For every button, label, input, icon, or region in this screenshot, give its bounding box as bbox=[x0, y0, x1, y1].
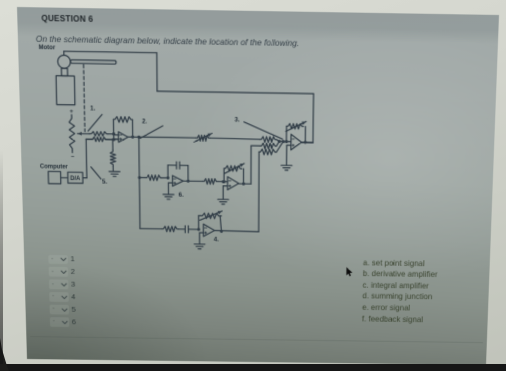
faint page separator line near bottom bbox=[30, 336, 483, 343]
pointer line 2 bbox=[140, 126, 163, 139]
ground (U4 + input) bbox=[218, 199, 229, 204]
question prompt bbox=[36, 34, 300, 49]
svg-text:D/A: D/A bbox=[70, 175, 81, 182]
ground stem U2 + input bbox=[168, 183, 172, 194]
label - (pot return) bbox=[71, 154, 75, 161]
label 2. bbox=[142, 118, 147, 125]
dropdown row 4 bbox=[48, 292, 50, 303]
pointer line 5 bbox=[91, 167, 101, 179]
node inverting input U1 bbox=[112, 132, 118, 141]
wire error branch to derivative bbox=[140, 228, 162, 230]
pot wiper arrow bbox=[77, 132, 89, 136]
potentiometer RV1 (position feedback) bbox=[69, 115, 75, 153]
dark corner wedge bottom-left bbox=[0, 338, 9, 371]
answer option e bbox=[362, 303, 410, 312]
motor arm (lever) bbox=[71, 60, 116, 64]
ground (U3 + input) bbox=[281, 165, 292, 170]
answer option c bbox=[363, 281, 429, 291]
ground stem U3 + input bbox=[287, 145, 291, 165]
resistor R8 (summing input D) bbox=[259, 149, 276, 155]
D/A converter block bbox=[68, 172, 83, 183]
label 6. bbox=[179, 192, 184, 199]
answer option b bbox=[363, 269, 438, 279]
motor M1 body bbox=[55, 51, 74, 105]
capacitor C1 (integrator feedback) bbox=[168, 162, 188, 181]
wire error node to P resistor bbox=[139, 136, 196, 139]
op-amp U3 (summing/power amplifier) bbox=[291, 134, 302, 150]
dropdown row 1 bbox=[47, 254, 49, 265]
resistor R7 (summing input I) bbox=[260, 143, 276, 149]
wire error node down to I and D branches bbox=[137, 137, 141, 229]
ground (U2 + input) bbox=[163, 194, 174, 199]
label 1. bbox=[90, 105, 96, 112]
svg-text:6.: 6. bbox=[179, 192, 184, 199]
mechanical link (dashed) motor shaft to pot wiper bbox=[84, 65, 85, 132]
mouse cursor bbox=[346, 267, 353, 277]
node summing junction bbox=[276, 140, 291, 153]
answer option a bbox=[363, 258, 425, 268]
wire U4 output up to summing resistor R7 bbox=[239, 145, 260, 185]
pointer line 3 bbox=[244, 122, 283, 139]
op-amp U4 (integral gain stage) bbox=[228, 177, 239, 190]
answer option d bbox=[362, 292, 432, 302]
wire P resistor to summing resistor bbox=[210, 138, 260, 139]
svg-text:2.: 2. bbox=[142, 118, 147, 125]
variable resistor R12 (U4 feedback) bbox=[222, 163, 244, 184]
op-amp U2 (integral amplifier) bbox=[172, 176, 183, 187]
dropdown row 2 bbox=[47, 267, 49, 278]
resistor R2 (set point input) bbox=[86, 137, 114, 142]
capacitor C2 (derivative input) bbox=[185, 226, 200, 233]
resistor R6 (summing input P) bbox=[260, 137, 277, 143]
ground resistor R3 at U1 + input bbox=[110, 139, 119, 171]
label 4. bbox=[214, 236, 219, 243]
label Motor bbox=[39, 45, 56, 51]
op-amp U1 (error amplifier) bbox=[118, 132, 128, 143]
wire U1 output / error node bbox=[128, 135, 140, 138]
question header bbox=[41, 13, 93, 23]
variable resistor R9 (U3 feedback) bbox=[285, 121, 306, 143]
svg-text:3.: 3. bbox=[235, 116, 240, 123]
dropdown row 5 bbox=[48, 304, 50, 315]
answer option f bbox=[362, 314, 423, 323]
label 3. bbox=[235, 116, 240, 123]
label + (pot supply) bbox=[70, 108, 74, 115]
dark monitor bezel bottom strip bbox=[0, 364, 506, 371]
wire motor supply from power-amp output (top route) bbox=[64, 51, 314, 142]
resistor R11 (integral gain input) bbox=[203, 179, 228, 185]
label Computer bbox=[40, 163, 69, 170]
wire U2 output bbox=[183, 179, 203, 182]
dropdown row 6 bbox=[48, 317, 50, 328]
svg-text:Computer: Computer bbox=[40, 163, 69, 170]
wire D/A to R2 bbox=[82, 139, 87, 178]
pointer line 1 bbox=[88, 114, 103, 131]
ground (U1 + input) bbox=[109, 171, 120, 176]
svg-text:4.: 4. bbox=[214, 236, 219, 243]
svg-text:1.: 1. bbox=[90, 105, 96, 112]
wire U3 output bbox=[301, 141, 313, 144]
wire computer to D/A bbox=[61, 177, 68, 179]
svg-text:−: − bbox=[71, 154, 75, 161]
variable resistor R5 (proportional gain) bbox=[194, 133, 212, 142]
dropdown row 3 bbox=[47, 279, 49, 290]
resistor R4 (U1 feedback) bbox=[113, 117, 132, 137]
dark left edge strip bbox=[0, 150, 3, 364]
resistor R13 (derivative input) bbox=[162, 226, 185, 232]
variable resistor R14 (U5 feedback) bbox=[199, 211, 222, 232]
computer block bbox=[48, 171, 61, 183]
ground stem U4 + input bbox=[223, 186, 227, 199]
op-amp U5 (derivative amplifier) bbox=[203, 224, 214, 237]
label 5. bbox=[102, 179, 107, 186]
wire U5 output up to summing resistor R8 bbox=[214, 151, 259, 233]
svg-text:5.: 5. bbox=[102, 179, 107, 186]
ground (U5 + input) bbox=[194, 244, 205, 249]
resistor R1 (feedback input) bbox=[89, 131, 114, 136]
ground stem U5 + input bbox=[200, 233, 204, 244]
resistor R10 (integrator input) bbox=[139, 175, 169, 181]
